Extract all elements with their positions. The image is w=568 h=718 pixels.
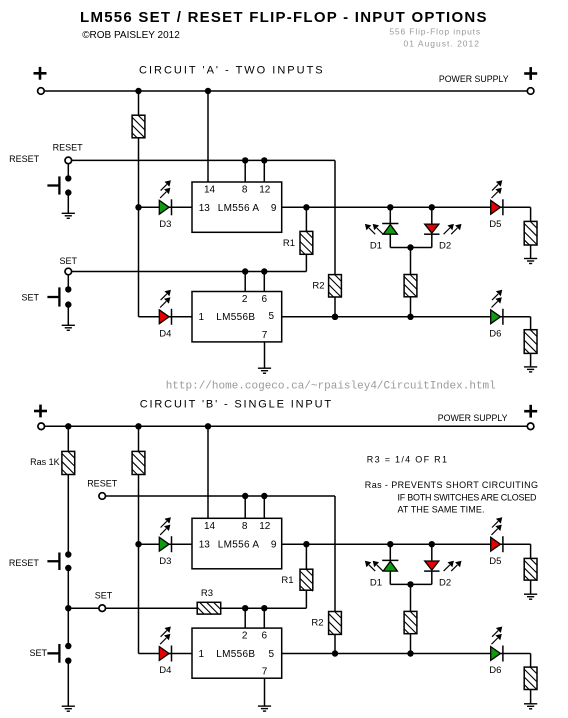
svg-text:12: 12 xyxy=(259,184,271,195)
svg-text:Ras 1K: Ras 1K xyxy=(30,457,60,467)
svg-text:D4: D4 xyxy=(159,328,171,339)
svg-text:8: 8 xyxy=(242,521,248,532)
svg-text:POWER SUPPLY: POWER SUPPLY xyxy=(439,74,509,84)
svg-text:01 August. 2012: 01 August. 2012 xyxy=(404,38,480,48)
svg-text:CIRCUIT 'A' - TWO INPUTS: CIRCUIT 'A' - TWO INPUTS xyxy=(139,65,325,77)
svg-text:13: 13 xyxy=(199,203,211,214)
svg-text:5: 5 xyxy=(269,649,275,660)
svg-text:14: 14 xyxy=(204,521,216,532)
svg-text:D5: D5 xyxy=(489,556,501,567)
svg-text:2: 2 xyxy=(242,630,248,641)
svg-text:2: 2 xyxy=(242,294,248,305)
svg-text:7: 7 xyxy=(262,666,268,677)
svg-text:12: 12 xyxy=(259,521,271,532)
svg-text:6: 6 xyxy=(262,630,268,641)
svg-text:D2: D2 xyxy=(439,578,451,589)
svg-text:©ROB PAISLEY 2012: ©ROB PAISLEY 2012 xyxy=(82,30,180,41)
svg-text:RESET: RESET xyxy=(87,479,118,489)
svg-text:5: 5 xyxy=(269,311,275,322)
svg-text:D3: D3 xyxy=(159,219,171,230)
svg-text:D6: D6 xyxy=(489,328,501,339)
svg-text:D3: D3 xyxy=(159,556,171,567)
svg-text:D5: D5 xyxy=(489,219,501,230)
svg-text:9: 9 xyxy=(271,203,277,214)
svg-text:D6: D6 xyxy=(489,665,501,676)
svg-text:LM556B: LM556B xyxy=(216,312,255,323)
svg-text:9: 9 xyxy=(271,540,277,551)
svg-text:IF BOTH SWITCHES ARE CLOSED: IF BOTH SWITCHES ARE CLOSED xyxy=(398,492,538,502)
svg-text:D1: D1 xyxy=(370,241,382,252)
svg-text:SET: SET xyxy=(21,292,39,302)
svg-text:8: 8 xyxy=(242,184,248,195)
svg-text:LM556B: LM556B xyxy=(216,649,255,660)
svg-text:1: 1 xyxy=(199,312,205,323)
svg-text:POWER SUPPLY: POWER SUPPLY xyxy=(438,413,508,423)
svg-text:CIRCUIT 'B' - SINGLE INPUT: CIRCUIT 'B' - SINGLE INPUT xyxy=(140,399,333,411)
svg-text:R3: R3 xyxy=(201,588,213,599)
svg-text:R2: R2 xyxy=(312,281,324,292)
svg-text:Ras - PREVENTS SHORT CIRCUITIN: Ras - PREVENTS SHORT CIRCUITING xyxy=(365,480,539,490)
svg-text:LM556 A: LM556 A xyxy=(218,203,260,214)
svg-text:RESET: RESET xyxy=(53,143,84,153)
svg-text:D1: D1 xyxy=(370,578,382,589)
svg-text:1: 1 xyxy=(199,649,205,660)
svg-text:SET: SET xyxy=(95,591,113,601)
svg-text:13: 13 xyxy=(199,540,211,551)
svg-text:14: 14 xyxy=(204,184,216,195)
svg-text:LM556 SET / RESET FLIP-FLOP -: LM556 SET / RESET FLIP-FLOP - INPUT OPTI… xyxy=(80,9,488,26)
svg-text:R3 = 1/4 OF R1: R3 = 1/4 OF R1 xyxy=(367,455,448,465)
svg-text:http://home.cogeco.ca/~rpaisle: http://home.cogeco.ca/~rpaisley4/Circuit… xyxy=(166,381,496,393)
svg-text:RESET: RESET xyxy=(9,558,40,568)
svg-text:R2: R2 xyxy=(311,617,323,628)
svg-text:R1: R1 xyxy=(281,575,293,586)
svg-text:6: 6 xyxy=(262,294,268,305)
svg-text:D4: D4 xyxy=(159,665,171,676)
svg-text:556 Flip-Flop inputs: 556 Flip-Flop inputs xyxy=(389,27,481,37)
svg-text:SET: SET xyxy=(29,648,47,658)
svg-text:SET: SET xyxy=(60,256,78,266)
svg-text:LM556 A: LM556 A xyxy=(218,540,260,551)
svg-text:7: 7 xyxy=(262,330,268,341)
svg-text:AT THE SAME TIME.: AT THE SAME TIME. xyxy=(398,504,485,514)
svg-text:D2: D2 xyxy=(439,241,451,252)
svg-text:R1: R1 xyxy=(283,238,295,249)
svg-text:RESET: RESET xyxy=(9,154,40,164)
